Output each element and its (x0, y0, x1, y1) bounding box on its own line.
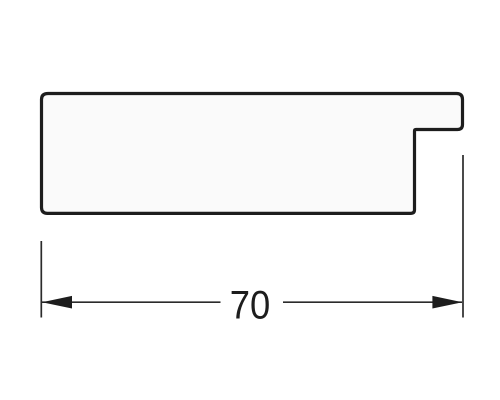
extension line left (40, 241, 42, 318)
dimension line left segment (42, 301, 221, 303)
arrowhead right (432, 296, 462, 309)
arrowhead left (42, 296, 72, 309)
svg-text:70: 70 (230, 284, 271, 328)
extension line right (462, 155, 464, 318)
dimension line right segment (283, 301, 462, 303)
profile outline P1 (42, 94, 463, 214)
